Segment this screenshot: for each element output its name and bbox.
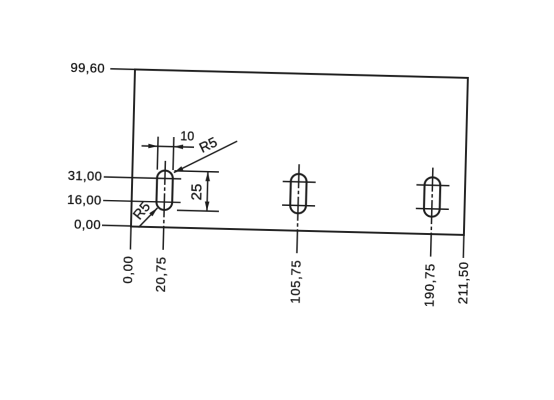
- dim 25 bottom extension: [177, 210, 219, 211]
- svg-text:211,50: 211,50: [455, 261, 471, 304]
- dim 10 arrow left: [148, 144, 158, 149]
- slot 2 upper arc center tick: [283, 180, 316, 183]
- leader line 0,00: [102, 224, 131, 227]
- dim 10 arrow right: [174, 144, 184, 149]
- svg-text:31,00: 31,00: [68, 168, 103, 184]
- slot 1 centerline: [163, 161, 165, 250]
- dim 10 extension right: [172, 137, 175, 170]
- slot 2 centerline: [297, 164, 299, 253]
- svg-text:99,60: 99,60: [70, 60, 105, 76]
- svg-text:R5: R5: [196, 134, 219, 156]
- svg-text:10: 10: [180, 129, 194, 143]
- leader line 16,00: [103, 200, 180, 202]
- slot 3 upper arc center tick: [416, 184, 449, 187]
- R5 top arrowhead: [174, 166, 184, 173]
- R5 leader top: [174, 140, 237, 175]
- svg-text:20,75: 20,75: [153, 256, 169, 292]
- R5 bottom arrowhead: [149, 208, 157, 217]
- slot 1 outline (20,75): [156, 170, 173, 210]
- svg-text:0,00: 0,00: [74, 217, 101, 233]
- extension line x=211,50: [462, 235, 465, 258]
- leader line 99,60: [110, 68, 135, 71]
- dim 25 top extension: [174, 171, 218, 172]
- svg-text:105,75: 105,75: [288, 260, 304, 304]
- svg-text:0,00: 0,00: [120, 255, 136, 283]
- R5 leader bottom: [138, 207, 157, 227]
- leader line 31,00: [104, 177, 181, 179]
- slot 2 outline (105,75): [290, 174, 307, 214]
- dim 10 line: [142, 146, 194, 147]
- svg-text:16,00: 16,00: [67, 192, 102, 208]
- slot 3 outline (190,75): [424, 177, 441, 217]
- dim 25 arrow up: [205, 172, 210, 182]
- svg-text:25: 25: [188, 183, 205, 200]
- dim 25 arrow down: [205, 201, 210, 211]
- dim 10 extension left: [156, 137, 159, 170]
- svg-text:190,75: 190,75: [422, 263, 438, 307]
- dim 25 line: [206, 172, 209, 211]
- slot 3 centerline: [431, 168, 433, 257]
- plate outline: [131, 69, 468, 234]
- extension line x=0,00: [129, 227, 132, 250]
- slot 3 lower arc center tick: [416, 207, 449, 210]
- slot 2 lower arc center tick: [282, 204, 315, 207]
